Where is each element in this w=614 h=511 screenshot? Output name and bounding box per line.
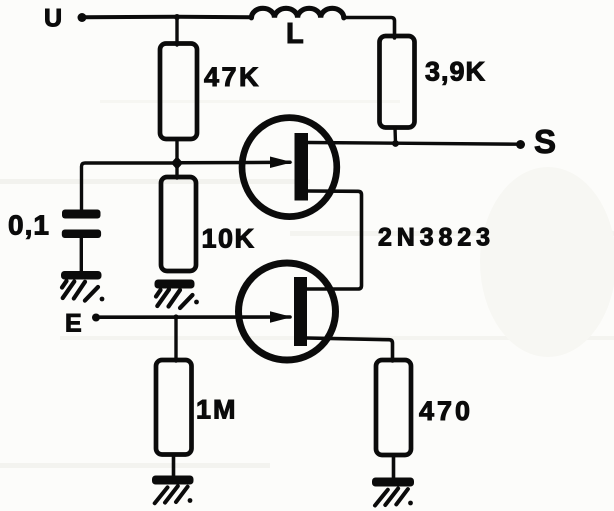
- node S junction: [392, 140, 399, 147]
- ground capacitor: [61, 271, 104, 301]
- resistor 3.9K: [380, 36, 415, 128]
- resistor 1M: [156, 360, 192, 455]
- ground 470: [372, 478, 414, 506]
- svg-text:L: L: [286, 18, 304, 50]
- node A junction: [171, 156, 183, 169]
- terminal S: [516, 140, 525, 149]
- node E junction: [173, 314, 178, 319]
- resistor 470: [376, 360, 411, 455]
- node top junction: [174, 14, 180, 20]
- wire 47K to node A: [175, 139, 178, 163]
- wire node A to 10K: [175, 163, 178, 178]
- inductor L: [251, 8, 343, 18]
- wire source Q2 to 470: [307, 338, 393, 361]
- ground 10K: [155, 280, 199, 309]
- wire drain Q1 to S: [308, 143, 518, 145]
- svg-text:0,1: 0,1: [8, 210, 50, 241]
- wire E to gate Q2: [98, 315, 290, 319]
- wire top junction to inductor: [177, 15, 251, 20]
- svg-text:1M: 1M: [196, 395, 238, 425]
- svg-text:3,9K: 3,9K: [425, 57, 486, 87]
- wire node A to gate Q1: [177, 161, 290, 165]
- transistor Q2: [239, 263, 336, 360]
- resistor 47K: [160, 44, 197, 140]
- wire node A left to capacitor corner: [82, 163, 178, 211]
- wire junction to 1M: [174, 317, 177, 361]
- capacitor 0,1 top plate: [62, 210, 101, 219]
- svg-text:S: S: [534, 123, 556, 160]
- wire inductor to 3.9K: [345, 18, 395, 39]
- terminal U: [78, 13, 87, 22]
- wire capacitor to ground: [80, 238, 83, 272]
- terminal E: [92, 314, 100, 322]
- wire top junction down to 47K: [175, 17, 178, 45]
- wire 470 to ground: [392, 455, 396, 478]
- wire source Q1 down to drain Q2: [307, 191, 362, 289]
- svg-text:47K: 47K: [204, 62, 261, 92]
- svg-text:2N3823: 2N3823: [378, 224, 495, 252]
- capacitor 0,1 bottom plate: [62, 230, 101, 239]
- resistor 10K: [161, 177, 196, 271]
- wire 3.9K to S line: [393, 128, 397, 144]
- svg-text:U: U: [44, 5, 62, 33]
- svg-text:E: E: [65, 310, 82, 338]
- svg-text:10K: 10K: [202, 224, 256, 254]
- wire 1M to ground: [172, 455, 176, 477]
- wire U to top junction: [84, 15, 177, 20]
- ground 1M: [152, 476, 194, 504]
- transistor Q1: [242, 118, 337, 217]
- svg-text:470: 470: [419, 396, 473, 426]
